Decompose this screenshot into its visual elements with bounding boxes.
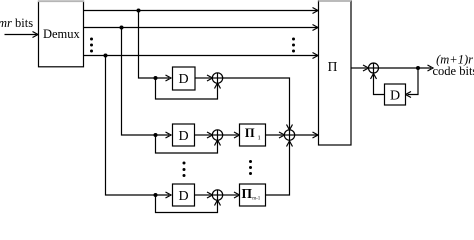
node tap on line 3 — [104, 54, 108, 58]
ellipsis dots between D2 and D3 — [183, 162, 186, 178]
wire tap 2 down to branch 2 — [122, 28, 170, 136]
input wire arrow into Demux — [5, 34, 37, 36]
wire feedback branch 2 — [156, 135, 218, 153]
wire demux output 3 to interleaver — [84, 55, 318, 57]
ellipsis dots right of demux — [90, 38, 93, 53]
adder X4 (output xor) — [369, 63, 379, 73]
adder X3 (xor) — [212, 190, 222, 200]
wire D2 to adder — [195, 134, 211, 136]
svg-text:Demux: Demux — [43, 27, 81, 41]
node feedback tap branch 2 — [154, 133, 158, 137]
node feedback tap branch 3 — [154, 193, 158, 197]
wire demux output 2 to interleaver — [84, 27, 318, 29]
adder X1 (xor) — [212, 73, 222, 83]
wire D4 back up to adder X4 — [374, 74, 385, 95]
svg-text:1: 1 — [258, 135, 261, 142]
wire branch 3 output up to adder X2 — [266, 141, 290, 195]
delay register D1 — [173, 67, 196, 90]
demux block U1 — [39, 1, 84, 67]
wire interleaver to output adder — [351, 67, 367, 69]
delay register D4 — [385, 84, 406, 105]
interleaver block PI — [319, 1, 352, 145]
wire adder X2 to interleaver — [295, 134, 318, 136]
wire branch 1 output down to adder X2 — [223, 78, 290, 129]
adder X2a (xor) — [212, 130, 222, 140]
wire D1 to adder — [195, 77, 211, 79]
node output tap — [416, 66, 420, 70]
wire feedback branch 1 — [156, 78, 218, 99]
wire tap 3 down to branch 3 — [106, 56, 170, 196]
wire feedback branch 3 — [156, 195, 218, 213]
wire demux output 1 to interleaver — [84, 10, 318, 12]
node tap on line 2 — [120, 26, 124, 30]
wire adder to interleaver Pm-1 — [223, 194, 238, 196]
wire adder X4 to output — [379, 67, 432, 69]
ellipsis dots between P1 and Pm-1 — [249, 160, 252, 175]
svg-text:mr bits: mr bits — [0, 16, 33, 30]
adder X2 (xor, combining) — [284, 130, 294, 140]
wire D3 to adder — [195, 194, 211, 196]
svg-text:D: D — [178, 72, 188, 87]
wire tap 1 down to branch 1 — [139, 11, 170, 79]
svg-text:D: D — [178, 129, 188, 144]
wire adder to interleaver P1 — [223, 134, 238, 136]
delay register D2 — [173, 124, 195, 146]
svg-text:code bits: code bits — [433, 64, 474, 78]
svg-text:D: D — [178, 189, 188, 204]
svg-text:Π: Π — [241, 186, 252, 201]
ellipsis dots left of interleaver — [292, 38, 295, 53]
node tap on line 1 — [137, 9, 141, 13]
wire P1 to adder X2 — [266, 134, 283, 136]
svg-text:Π: Π — [245, 126, 255, 140]
delay register D3 — [173, 184, 195, 206]
interleaver P1 — [240, 124, 266, 146]
svg-text:Π: Π — [328, 59, 338, 74]
svg-text:m-1: m-1 — [252, 197, 261, 202]
interleaver Pm-1 — [240, 184, 266, 206]
svg-text:D: D — [390, 89, 400, 104]
node feedback tap branch 1 — [154, 76, 158, 80]
wire output tap down into D4 — [408, 68, 419, 95]
